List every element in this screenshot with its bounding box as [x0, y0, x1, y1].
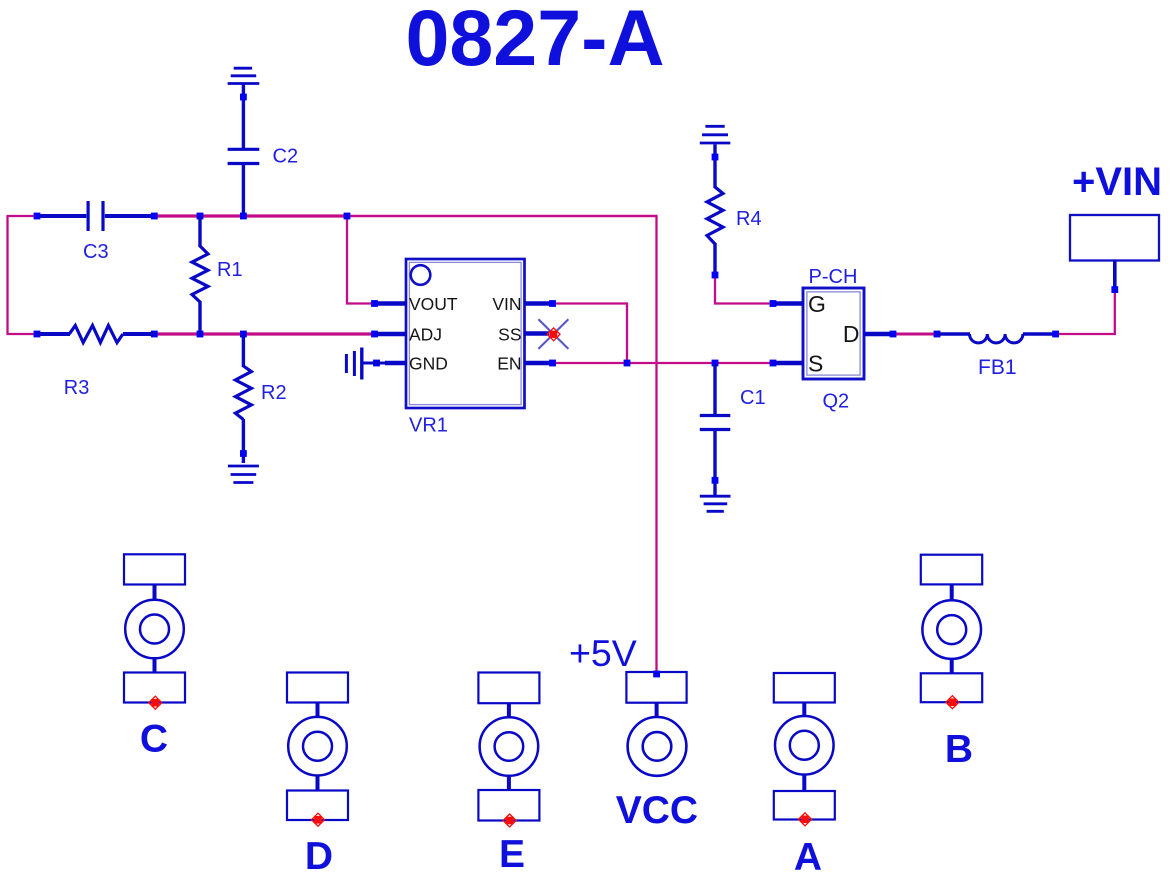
svg-text:Q2: Q2	[823, 391, 850, 413]
junction (C2 bottom)	[240, 213, 247, 220]
node C pin marker	[149, 696, 162, 709]
transistor Q2 (P-CH MOSFET block)	[770, 288, 897, 379]
node E pin marker	[503, 814, 516, 827]
svg-text:VR1: VR1	[409, 415, 448, 437]
wire ground to C2	[240, 85, 247, 149]
connector D (test point)	[287, 673, 348, 821]
svg-text:R2: R2	[261, 382, 287, 404]
connector C (test point)	[124, 554, 185, 702]
ground (above R4)	[700, 126, 731, 143]
wire net VOUT-feedback left vertical (magenta)	[6, 216, 8, 334]
connector E (test point)	[478, 673, 539, 821]
junction (R1 bottom)	[197, 331, 204, 338]
svg-text:VCC: VCC	[616, 789, 698, 832]
svg-text:C3: C3	[83, 241, 109, 263]
svg-text:EN: EN	[497, 353, 521, 373]
wire FB1 to +VIN connector	[1057, 291, 1115, 334]
capacitor C2	[228, 149, 260, 215]
svg-text:GND: GND	[409, 353, 448, 373]
node A pin marker	[799, 813, 812, 826]
svg-text:C2: C2	[273, 146, 299, 168]
wire drain D to FB1	[895, 333, 935, 336]
inductor FB1 (ferrite bead)	[934, 331, 1059, 379]
no-connect X at SS pin	[538, 319, 568, 349]
connector B (test point)	[921, 555, 982, 703]
resistor R3	[34, 325, 158, 399]
svg-text:R4: R4	[736, 208, 762, 230]
svg-text:A: A	[794, 836, 822, 879]
svg-text:D: D	[305, 835, 333, 878]
wire top net horizontal left segment	[7, 215, 37, 217]
resistor R4	[707, 144, 762, 278]
connector VCC (test point)	[626, 672, 686, 776]
svg-text:R1: R1	[217, 259, 243, 281]
resistor R2	[235, 335, 286, 463]
svg-text:SS: SS	[498, 324, 521, 344]
ground (above C2)	[228, 68, 260, 83]
junction (VOUT drop)	[344, 213, 351, 220]
resistor R1	[192, 217, 243, 333]
wire drop from top net to VOUT pin	[347, 217, 372, 304]
connector A (test point)	[774, 673, 835, 820]
svg-text:0827-A: 0827-A	[405, 0, 664, 82]
wire top net horizontal main segment (C3 to VOUT junction)	[155, 214, 348, 217]
wire bottom net horizontal to ADJ pin	[155, 332, 372, 335]
junction (R2 top)	[240, 331, 247, 338]
junction (R1 top)	[197, 213, 204, 220]
node B pin marker	[946, 696, 959, 709]
wire bottom net horizontal left segment	[7, 333, 37, 335]
signal ground (at GND pin of VR1)	[346, 348, 386, 380]
wire EN row horizontal (magenta)	[555, 362, 771, 364]
ground (below R2)	[228, 466, 259, 483]
svg-text:S: S	[808, 350, 823, 376]
svg-text:FB1: FB1	[978, 356, 1017, 379]
svg-text:VIN: VIN	[492, 294, 521, 314]
svg-text:P-CH: P-CH	[809, 266, 858, 288]
capacitor C3	[40, 201, 154, 231]
svg-text:D: D	[843, 321, 860, 347]
svg-text:+VIN: +VIN	[1072, 160, 1162, 204]
node D pin marker	[312, 813, 325, 826]
op-amp regulator VR1	[371, 259, 556, 408]
svg-text:ADJ: ADJ	[409, 324, 442, 344]
svg-text:R3: R3	[64, 377, 90, 399]
capacitor C1	[700, 364, 731, 495]
svg-text:C1: C1	[740, 387, 766, 409]
wire +5V vertical drop to VCC	[655, 216, 657, 672]
svg-text:G: G	[808, 291, 826, 317]
wire R4 bottom to gate G	[715, 277, 771, 304]
svg-text:+5V: +5V	[569, 632, 637, 674]
wire VIN pin to EN row	[555, 304, 627, 362]
svg-text:B: B	[945, 728, 973, 771]
ground (below C1)	[700, 496, 731, 511]
junction (C1 top / S row)	[712, 360, 719, 367]
svg-text:C: C	[140, 718, 168, 761]
wire top net horizontal (VOUT junction to +5V corner)	[347, 215, 658, 217]
node VCC pin pad	[653, 671, 660, 678]
svg-text:VOUT: VOUT	[409, 294, 458, 314]
junction (VIN-EN)	[624, 360, 631, 367]
connector +VIN	[1070, 215, 1159, 293]
svg-text:E: E	[499, 833, 525, 876]
